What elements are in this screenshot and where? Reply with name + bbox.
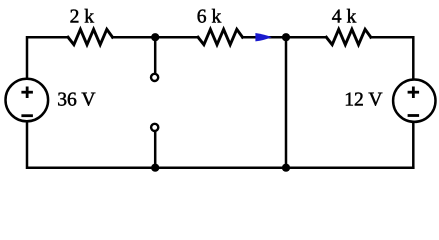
wire node A down to terminal a xyxy=(154,37,157,73)
wire R3 to V2 top lead xyxy=(371,37,414,79)
V1 plus sign xyxy=(21,87,33,99)
wire R2 to node B xyxy=(243,36,287,39)
V2 plus sign xyxy=(408,87,420,99)
svg-text:4 k: 4 k xyxy=(332,7,357,28)
current arrow blue xyxy=(255,33,271,41)
wire node A to R2 xyxy=(155,36,198,39)
svg-text:12 V: 12 V xyxy=(344,90,382,111)
wire V2 bottom lead xyxy=(412,122,415,168)
resistor R2 6k xyxy=(198,29,243,44)
resistor R3 4k xyxy=(326,29,371,44)
voltage source V1 36V circle xyxy=(6,79,49,122)
svg-text:6 k: 6 k xyxy=(197,7,222,28)
voltage source V2 12V circle xyxy=(393,80,435,122)
wire V1 top lead and top-left rail xyxy=(27,37,68,78)
svg-text:36 V: 36 V xyxy=(57,90,95,111)
junction node A xyxy=(151,33,159,41)
wire R1 to node A xyxy=(113,36,156,39)
V1 minus sign xyxy=(21,114,33,117)
terminal b open circle xyxy=(151,124,158,131)
junction node A bottom xyxy=(151,164,159,172)
svg-text:2 k: 2 k xyxy=(70,7,95,28)
wire terminal b down to bottom rail xyxy=(154,132,157,168)
resistor R1 2k xyxy=(68,29,113,44)
terminal a open circle xyxy=(151,74,158,81)
V2 minus sign xyxy=(408,114,420,117)
junction node B xyxy=(282,33,290,41)
wire node B to R3 xyxy=(286,36,326,39)
wire bottom rail and V1 bottom lead xyxy=(27,122,413,168)
wire node B down to bottom rail xyxy=(285,37,288,168)
junction node B bottom xyxy=(282,164,290,172)
